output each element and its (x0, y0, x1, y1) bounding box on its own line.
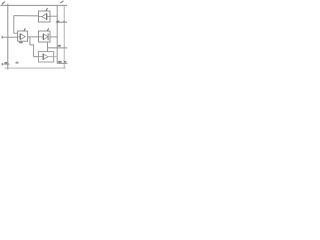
amplifier A2 input stub (39, 36, 44, 38)
wire A4 to bus (54, 56, 58, 58)
numeral blob IN2 (4, 62, 7, 64)
lead IN1 crossing left border (2, 36, 18, 38)
lead IN2 end tick (1, 63, 3, 66)
amplifier A2 triangle base (42, 34, 44, 40)
numeral blob OUT1 at border (63, 21, 66, 23)
numeral blob below A1 (19, 41, 23, 43)
amplifier A2 triangle (43, 34, 48, 40)
wire into A1 upper input (14, 32, 18, 34)
lead OUT2 crossing right border (48, 47, 68, 49)
amplifier A3 stub right (47, 16, 50, 18)
bus vertical (56, 6, 58, 64)
wire left vertical down to A1 (13, 16, 15, 34)
amplifier A4 triangle (43, 54, 48, 60)
border top (1, 4, 68, 6)
wire A1 out to A2 in (28, 36, 39, 38)
numeral blob inside bottom-left (15, 62, 18, 64)
leader tick above A2 (47, 28, 49, 31)
amplifier A4 triangle base (42, 54, 44, 60)
amplifier A4 output stub (48, 56, 54, 58)
amplifier A4 box (39, 52, 54, 62)
wire A2 bottom to A4 top (47, 42, 49, 52)
border left (7, 4, 9, 70)
numeral blob OUT2 (58, 45, 61, 47)
numeral blob OUT3 inner (58, 61, 62, 63)
amplifier A3 triangle (42, 14, 47, 20)
fig label tick top-left (2, 2, 5, 5)
wire long top from node to amp A3 input (14, 15, 39, 17)
amplifier A3 box (39, 11, 51, 22)
wire A2 out to bus (50, 36, 57, 38)
leader tick above A3 (46, 8, 47, 11)
wire A3 right to bus (50, 15, 57, 17)
amplifier A1 triangle (20, 34, 25, 40)
leader tick above A1 (24, 28, 26, 31)
lead IN2 crossing left border (2, 63, 9, 65)
amplifier A1 box (18, 31, 28, 41)
fig label tick top-right (60, 1, 63, 3)
border bottom (5, 67, 67, 69)
amplifier A2 bar at apex (47, 33, 49, 40)
amplifier A1 input stub (18, 36, 21, 38)
wire branch down from A1 out (30, 37, 39, 57)
border right (63, 5, 65, 68)
amplifier A4 input stub (39, 56, 44, 58)
junction blob lead OUT1 (56, 21, 59, 23)
amplifier A3 triangle base (46, 13, 48, 20)
lead OUT3 crossing right border (57, 62, 67, 64)
lead OUT1 crossing right border (56, 21, 67, 23)
numeral blob OUT3 at border (64, 61, 67, 63)
lead IN1 end tick (1, 36, 3, 39)
amplifier A1 triangle base (19, 33, 21, 39)
amplifier A2 box (39, 31, 51, 42)
amplifier A3 input stub left (39, 16, 42, 18)
